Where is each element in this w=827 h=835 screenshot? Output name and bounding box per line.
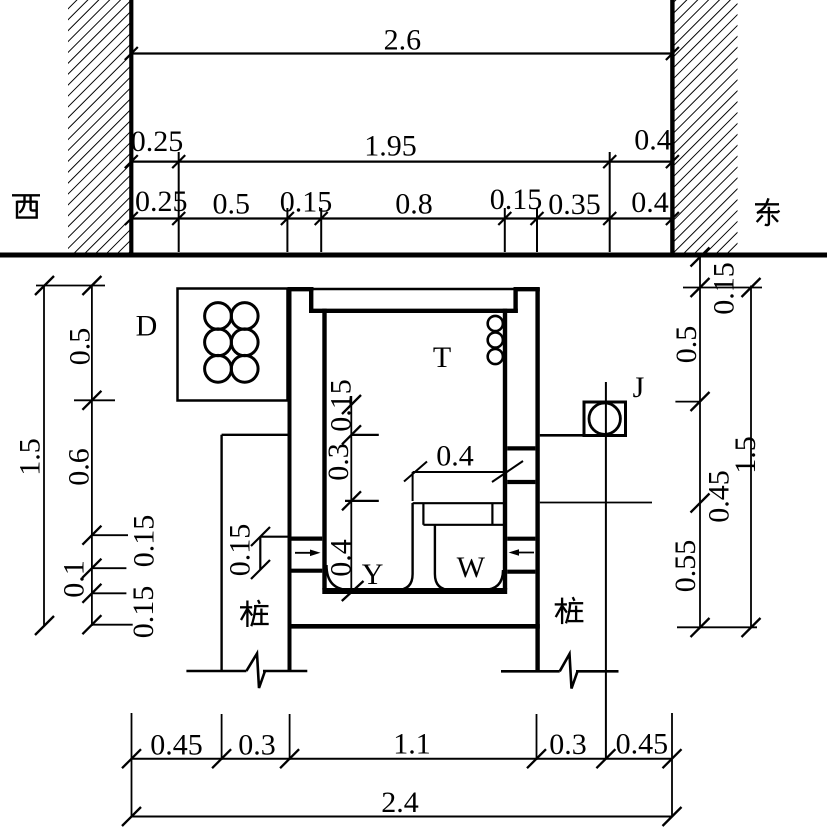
J vertical line bbox=[605, 382, 607, 759]
svg-text:0.35: 0.35 bbox=[548, 188, 601, 221]
tank top plate thick right bbox=[514, 287, 540, 291]
svg-text:T: T bbox=[433, 341, 451, 374]
right flow arrow bbox=[509, 549, 535, 556]
svg-text:1.5: 1.5 bbox=[729, 436, 762, 474]
right outer wall bbox=[535, 288, 539, 670]
dim line 0.25/1.95/0.4 bbox=[125, 155, 679, 168]
right inner wall bbox=[503, 309, 507, 590]
extension verticals top dims bbox=[179, 152, 610, 252]
W slab bbox=[413, 503, 504, 525]
left chain ticks bbox=[35, 276, 101, 635]
dim line 0.25/0.5/0.15/0.8/0.15/0.35/0.4 bbox=[125, 212, 679, 225]
right upper inner line bbox=[513, 289, 517, 313]
left pile left edge bbox=[220, 435, 222, 670]
svg-text:1.5: 1.5 bbox=[14, 438, 47, 476]
dim 0.4 inside tank bbox=[404, 461, 523, 501]
svg-text:0.15: 0.15 bbox=[224, 524, 257, 577]
right pile break bbox=[501, 654, 619, 689]
left chain outer 1.5 line bbox=[43, 286, 45, 627]
svg-text:0.15: 0.15 bbox=[127, 586, 160, 639]
right chain extensions bbox=[675, 288, 762, 628]
svg-text:0.6: 0.6 bbox=[63, 448, 96, 486]
svg-text:0.3: 0.3 bbox=[238, 729, 276, 762]
svg-text:Y: Y bbox=[362, 558, 384, 591]
svg-text:2.4: 2.4 bbox=[381, 786, 419, 819]
ext line y=502 to right chain bbox=[540, 502, 652, 504]
interior chain line bbox=[350, 396, 352, 592]
west wall inner face line bbox=[129, 0, 133, 253]
svg-text:0.5: 0.5 bbox=[212, 188, 250, 221]
svg-text:0.45: 0.45 bbox=[703, 470, 736, 523]
left upper inner line bbox=[309, 289, 313, 313]
east wall hatch bbox=[675, 0, 738, 253]
tank top plate thin bbox=[311, 288, 516, 291]
right chain line bbox=[699, 253, 701, 628]
label dong (east) bbox=[755, 198, 780, 225]
svg-text:0.45: 0.45 bbox=[150, 729, 203, 762]
label xi (west) bbox=[12, 195, 40, 218]
svg-text:0.15: 0.15 bbox=[708, 262, 741, 315]
small dim 0.15 at wall bbox=[251, 527, 292, 579]
svg-text:0.5: 0.5 bbox=[670, 326, 703, 364]
svg-text:0.1: 0.1 bbox=[58, 560, 91, 598]
divider wall bbox=[397, 503, 451, 590]
left chain line bbox=[91, 286, 93, 627]
left flow arrow bbox=[295, 550, 321, 557]
line wall to J box bbox=[540, 434, 584, 437]
svg-text:1.1: 1.1 bbox=[393, 728, 431, 761]
label zhuang (pile) left bbox=[240, 600, 269, 627]
svg-text:J: J bbox=[633, 371, 645, 404]
W right corner arc bbox=[483, 570, 503, 590]
east wall inner face line bbox=[670, 0, 674, 253]
svg-text:0.3: 0.3 bbox=[549, 728, 587, 761]
west wall hatch bbox=[68, 0, 130, 253]
svg-text:W: W bbox=[457, 551, 486, 584]
tank floor bbox=[322, 588, 507, 594]
right chain ticks bbox=[691, 248, 761, 638]
svg-text:0.55: 0.55 bbox=[669, 540, 702, 593]
left chain extensions bbox=[36, 286, 133, 625]
svg-text:0.15: 0.15 bbox=[490, 183, 543, 216]
svg-text:0.4: 0.4 bbox=[436, 440, 474, 473]
bottom dim extensions bbox=[132, 713, 673, 817]
Y left corner arc bbox=[327, 565, 351, 590]
svg-text:0.4: 0.4 bbox=[631, 186, 669, 219]
left pile cap top bbox=[222, 434, 288, 436]
bottom dim line 1 bbox=[132, 758, 673, 760]
bottom dim line 1 ticks bbox=[122, 749, 682, 768]
left pile break bbox=[186, 654, 307, 689]
T circles bbox=[488, 316, 503, 364]
ground line bbox=[0, 253, 827, 258]
svg-text:0.8: 0.8 bbox=[395, 187, 433, 220]
J circle bbox=[589, 403, 620, 434]
svg-text:0.15: 0.15 bbox=[325, 379, 358, 432]
tank top plate thick left bbox=[288, 287, 314, 291]
bottom dim line 2.4 bbox=[132, 816, 673, 818]
svg-text:0.4: 0.4 bbox=[634, 124, 672, 157]
lid slab bbox=[309, 309, 518, 313]
label zhuang (pile) right bbox=[555, 597, 584, 624]
svg-text:2.6: 2.6 bbox=[384, 24, 422, 57]
left outer wall bbox=[288, 288, 292, 670]
interior chain ticks bbox=[342, 395, 379, 601]
D circles bbox=[205, 303, 259, 383]
svg-text:D: D bbox=[136, 310, 158, 343]
left wall opening bbox=[292, 539, 323, 571]
svg-text:0.4: 0.4 bbox=[325, 539, 358, 577]
svg-text:1.95: 1.95 bbox=[364, 130, 417, 163]
D box bbox=[178, 289, 288, 401]
J box bbox=[584, 402, 626, 436]
right wall rungs bbox=[507, 448, 535, 571]
svg-text:0.3: 0.3 bbox=[322, 443, 355, 481]
dim line 2.6 bbox=[125, 47, 679, 60]
svg-text:0.25: 0.25 bbox=[131, 125, 184, 158]
svg-text:0.45: 0.45 bbox=[616, 728, 669, 761]
bottom slab bbox=[288, 624, 540, 629]
svg-text:0.15: 0.15 bbox=[128, 515, 161, 568]
left inner wall bbox=[322, 309, 326, 590]
svg-text:0.5: 0.5 bbox=[64, 328, 97, 366]
right chain outer 1.5 line bbox=[750, 286, 752, 629]
